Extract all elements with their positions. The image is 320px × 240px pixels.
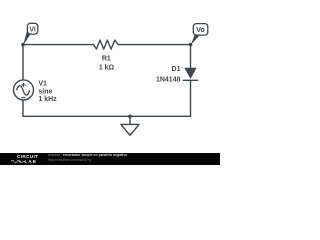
wire bottom horizontal: [23, 115, 191, 117]
svg-text:Vo: Vo: [196, 27, 204, 34]
svg-text:R1: R1: [102, 56, 111, 63]
svg-text:1 kHz: 1 kHz: [38, 96, 57, 103]
svg-text:Vi: Vi: [29, 26, 36, 33]
ground: [121, 116, 139, 135]
label R1 1 kΩ: [99, 56, 115, 72]
node Vi: [23, 23, 38, 45]
CircuitLab logo: [17, 154, 38, 159]
junction dot Vi: [21, 43, 25, 47]
diode D1: [183, 68, 198, 81]
footer text line 1: [48, 153, 128, 157]
footer text line 2: [48, 158, 92, 162]
wire top-right horizontal: [118, 44, 190, 46]
footer bar: [0, 153, 220, 166]
wire right vertical (Vo to diode): [190, 45, 192, 68]
node Vo: [191, 24, 208, 45]
voltage source V1: [14, 80, 34, 100]
svg-text:D1: D1: [172, 66, 181, 73]
wire right vertical (diode to bottom): [190, 80, 192, 116]
label D1 1N4148: [156, 66, 181, 83]
wire left vertical (V1 bottom to corner): [22, 100, 24, 116]
svg-text:1N4148: 1N4148: [156, 76, 181, 83]
svg-text:V1: V1: [38, 80, 47, 87]
resistor R1: [94, 40, 119, 49]
label V1 sine 1 kHz: [38, 80, 57, 103]
svg-text:sine: sine: [38, 88, 52, 95]
junction dot ground: [128, 115, 132, 119]
wire top-left horizontal: [23, 44, 94, 46]
junction dot Vo: [189, 43, 193, 47]
wire left vertical (Vi to V1 top): [22, 45, 24, 80]
svg-text:1 kΩ: 1 kΩ: [99, 65, 115, 72]
